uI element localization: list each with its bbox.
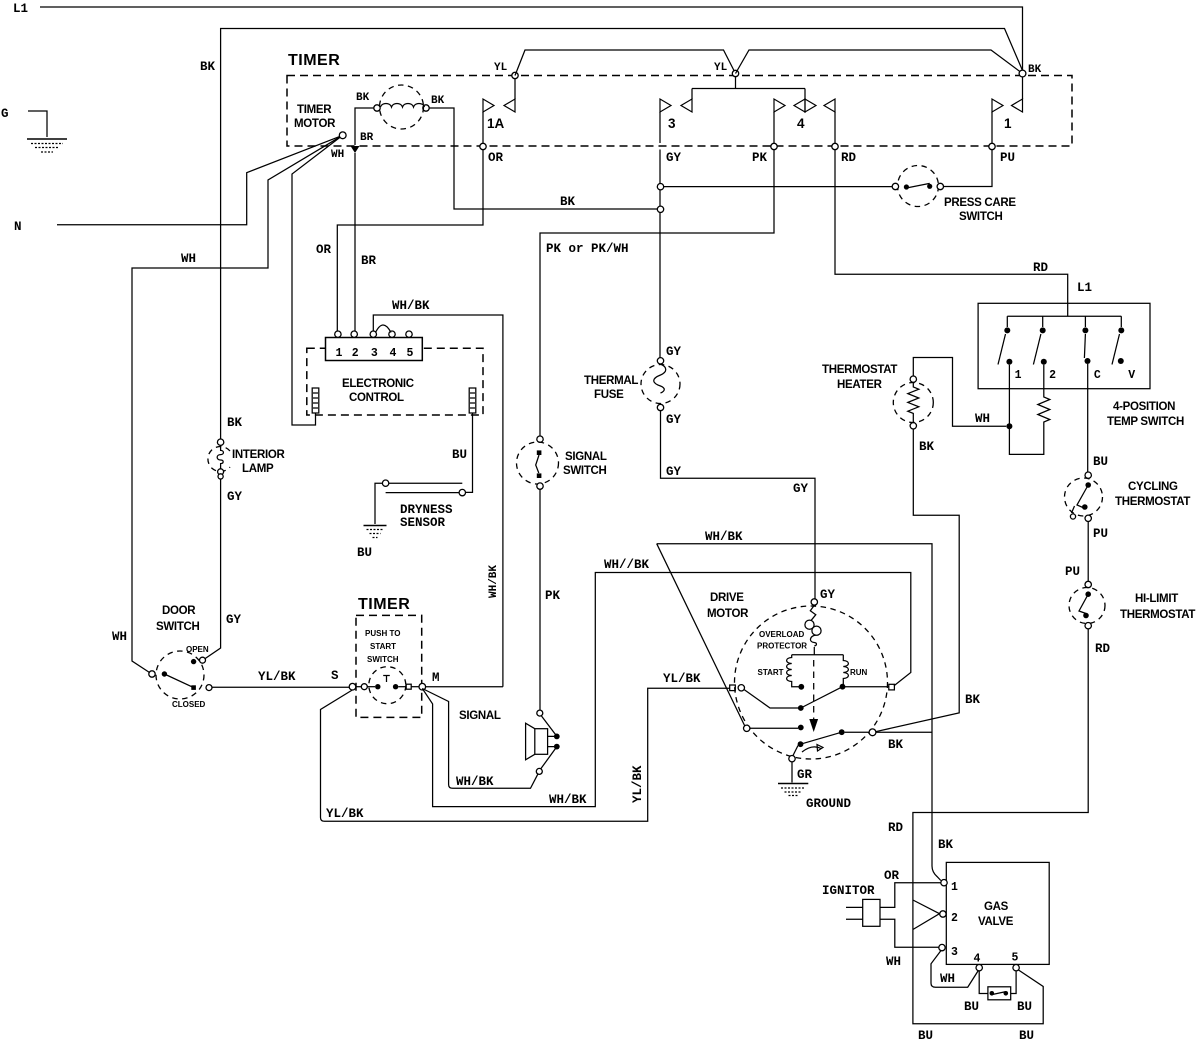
svg-text:SWITCH: SWITCH: [156, 621, 200, 633]
svg-text:YL/BK: YL/BK: [663, 672, 701, 686]
svg-text:MOTOR: MOTOR: [707, 608, 749, 620]
wire RD branch to gas valve pin 2: [913, 900, 940, 930]
timer contact 1A: [483, 72, 518, 143]
svg-text:YL/BK: YL/BK: [326, 807, 364, 821]
node start winding: [798, 684, 804, 690]
svg-text:1: 1: [1004, 116, 1012, 131]
wire RD contact 4 to temp switch: [835, 150, 1068, 317]
hi-limit thermostat: [1069, 581, 1105, 629]
wire run to centrifugal: [801, 687, 843, 708]
run winding: [843, 655, 848, 687]
node junction press care on GY wire: [657, 184, 663, 190]
node centrifugal lower: [798, 741, 804, 747]
wire temp switch 1 to WH junction: [1009, 365, 1043, 455]
svg-text:4: 4: [390, 347, 397, 360]
svg-text:CLOSED: CLOSED: [172, 700, 206, 709]
svg-text:2: 2: [352, 347, 359, 360]
svg-text:PK: PK: [752, 151, 768, 165]
wire buzzer upper lead: [541, 716, 555, 735]
svg-text:2: 2: [1049, 369, 1056, 382]
node WH timer motor: [339, 132, 346, 139]
temp switch contact 2: [1033, 316, 1056, 382]
svg-text:THERMOSTAT: THERMOSTAT: [1115, 496, 1190, 508]
svg-text:WH: WH: [975, 412, 990, 426]
timer contact 1: [992, 77, 1023, 143]
wire G to ground: [28, 111, 47, 137]
wire BK heater to drive motor switch: [876, 429, 960, 732]
wire GY thermal fuse to drive motor: [661, 411, 816, 599]
ground G symbol: [27, 139, 67, 152]
terminal circle lower left: [744, 725, 750, 731]
node BK at contact 1: [1019, 70, 1026, 77]
svg-text:DOOR: DOOR: [162, 605, 196, 617]
svg-text:BU: BU: [452, 448, 467, 462]
svg-text:DRYNESS: DRYNESS: [400, 503, 453, 517]
ignitor: [846, 899, 880, 926]
node signal buzzer lower: [536, 768, 542, 774]
junction dot WH: [1006, 423, 1012, 429]
electronic control right tab: [469, 388, 476, 413]
svg-text:GY: GY: [820, 588, 836, 602]
flame switch contacts: [990, 991, 1009, 996]
svg-text:OR: OR: [316, 243, 332, 257]
wire WH heater to temp switch pin 1: [913, 358, 1006, 427]
svg-text:BU: BU: [357, 546, 372, 560]
svg-text:BK: BK: [431, 95, 445, 107]
svg-text:BK: BK: [356, 92, 370, 104]
svg-text:BR: BR: [361, 254, 377, 268]
svg-text:WH/BK: WH/BK: [488, 565, 500, 598]
svg-text:L1: L1: [1077, 281, 1092, 295]
wire N to timer motor WH node: [57, 135, 343, 224]
centrifugal switch blade upper: [744, 690, 798, 709]
cycling thermostat: [1065, 472, 1103, 522]
svg-text:LAMP: LAMP: [242, 463, 274, 475]
svg-text:5: 5: [1012, 952, 1019, 965]
wire ground: [791, 762, 793, 783]
svg-text:PU: PU: [1000, 151, 1015, 165]
wire YL contact 1A to YL node: [515, 50, 736, 76]
svg-text:4: 4: [797, 116, 805, 131]
timer contact 3: [660, 89, 692, 144]
timer motor coil: [355, 85, 657, 209]
ground symbol motor: [778, 784, 808, 796]
temp switch contact C: [1082, 316, 1101, 382]
wire WH timer motor to door switch: [132, 135, 343, 672]
svg-text:RD: RD: [841, 151, 857, 165]
node junction BK on GY wire: [657, 206, 663, 212]
wire pin 4 to flame switch: [979, 971, 988, 994]
wire jumper hump pin3 to pin4: [376, 325, 392, 333]
svg-text:TIMER: TIMER: [358, 596, 410, 613]
overload protector: [805, 605, 821, 655]
svg-text:YL/BK: YL/BK: [631, 765, 645, 803]
svg-text:GAS: GAS: [984, 901, 1009, 913]
wire WH/BK pin 3 to push-to-start M: [373, 315, 503, 687]
svg-text:ELECTRONIC: ELECTRONIC: [342, 378, 414, 390]
svg-text:PU: PU: [1065, 565, 1080, 579]
wire OR contact 1A to electronic control pin 1: [337, 150, 483, 331]
svg-text:RUN: RUN: [850, 668, 868, 677]
svg-text:M: M: [432, 671, 440, 685]
svg-text:YL/BK: YL/BK: [258, 670, 296, 684]
wire WH/BK M to motor run: [422, 573, 911, 807]
svg-text:4: 4: [974, 953, 981, 966]
svg-text:PUSH TO: PUSH TO: [365, 629, 400, 638]
svg-text:GY: GY: [226, 613, 242, 627]
svg-text:THERMAL: THERMAL: [584, 375, 638, 387]
svg-text:OR: OR: [884, 869, 900, 883]
svg-text:WH: WH: [181, 252, 196, 266]
svg-text:1A: 1A: [487, 116, 505, 131]
ground dryness sensor: [364, 526, 387, 538]
svg-text:5: 5: [407, 347, 414, 360]
svg-text:GROUND: GROUND: [806, 797, 852, 811]
node ground motor: [789, 756, 795, 762]
svg-text:PK: PK: [545, 589, 561, 603]
svg-text:HI-LIMIT: HI-LIMIT: [1135, 593, 1178, 605]
svg-text:PROTECTOR: PROTECTOR: [757, 642, 807, 651]
svg-text:INTERIOR: INTERIOR: [232, 449, 286, 461]
axis arrowhead: [809, 719, 818, 732]
svg-text:SIGNAL: SIGNAL: [459, 710, 501, 722]
wire WH timer motor to electronic control tab: [292, 135, 343, 425]
node OR at timer edge: [480, 143, 486, 149]
wire YL bus above contacts 3 and 4: [692, 88, 805, 90]
electronic control dashed box: [307, 348, 483, 415]
svg-text:G: G: [1, 107, 9, 121]
interior lamp: [208, 439, 230, 479]
svg-text:L1: L1: [13, 2, 28, 16]
svg-text:GY: GY: [793, 482, 809, 496]
thermostat heater: [893, 376, 933, 429]
svg-text:SENSOR: SENSOR: [400, 516, 446, 530]
signal buzzer: [526, 723, 560, 760]
temp switch contact V: [1112, 316, 1135, 382]
svg-text:WH//BK: WH//BK: [604, 558, 650, 572]
svg-text:GY: GY: [227, 490, 243, 504]
wire BK interior lamp to timer contact 1: [221, 29, 1023, 440]
svg-text:TIMER: TIMER: [288, 52, 340, 69]
wire OR ignitor to pin 1: [880, 883, 941, 908]
svg-text:RD: RD: [888, 821, 904, 835]
svg-text:CYCLING: CYCLING: [1128, 481, 1178, 493]
svg-text:RD: RD: [1033, 261, 1049, 275]
wire PU cycling to hi-limit: [1087, 522, 1089, 582]
svg-text:IGNITOR: IGNITOR: [822, 884, 875, 898]
node PK at timer edge: [771, 143, 777, 149]
svg-text:OPEN: OPEN: [186, 645, 209, 654]
svg-text:START: START: [758, 668, 784, 677]
svg-text:DRIVE: DRIVE: [710, 592, 744, 604]
wire PU press care to contact 1: [944, 150, 993, 187]
svg-text:SWITCH: SWITCH: [959, 211, 1003, 223]
svg-text:BK: BK: [938, 838, 954, 852]
node YL: [732, 70, 738, 76]
node centrifugal upper: [798, 705, 804, 711]
svg-text:START: START: [370, 642, 396, 651]
svg-text:BK: BK: [200, 60, 216, 74]
svg-text:GR: GR: [797, 768, 813, 782]
timer dashed box: [287, 76, 1072, 147]
wire to BK junction: [845, 731, 932, 733]
electronic control left tab: [312, 388, 319, 413]
gas valve pin terminals: [939, 880, 1020, 971]
wire BR to electronic control pin 2: [354, 153, 356, 331]
push to start dashed box: [356, 615, 422, 717]
svg-text:GY: GY: [666, 345, 682, 359]
wire YL/BK door switch to S terminal: [212, 686, 349, 688]
blade lower switch: [801, 732, 842, 744]
svg-text:BU: BU: [964, 1000, 979, 1014]
svg-text:3: 3: [668, 116, 676, 131]
svg-text:4-POSITION: 4-POSITION: [1113, 401, 1175, 413]
wire PK contact 4 to signal switch: [540, 150, 774, 436]
svg-text:WH: WH: [331, 149, 344, 161]
svg-text:YL: YL: [494, 62, 508, 74]
svg-text:GY: GY: [666, 465, 682, 479]
wire GR to ground: [793, 746, 798, 756]
node GY at motor top: [811, 599, 817, 605]
wire M to WH/BK corner: [426, 686, 503, 688]
svg-text:VALVE: VALVE: [978, 916, 1014, 928]
node blade end: [839, 729, 845, 735]
svg-text:PK or PK/WH: PK or PK/WH: [546, 242, 629, 256]
flame switch box: [988, 987, 1011, 1000]
drive motor dashed circle: [735, 606, 888, 759]
pin triangle BR at timer box edge: [351, 146, 360, 153]
terminal square left YL/BK: [730, 685, 736, 691]
svg-text:WH: WH: [886, 955, 901, 969]
svg-text:BR: BR: [360, 132, 374, 144]
node signal buzzer upper: [537, 710, 543, 716]
svg-text:TEMP SWITCH: TEMP SWITCH: [1107, 416, 1184, 428]
terminal square right: [889, 684, 895, 690]
svg-text:SWITCH: SWITCH: [563, 465, 607, 477]
gas valve pin labels: [951, 881, 1019, 966]
svg-text:BK: BK: [227, 416, 243, 430]
svg-text:3: 3: [371, 347, 378, 360]
temp switch contact 1: [998, 316, 1022, 382]
4-position temp switch box: [978, 303, 1150, 388]
wire press care switch left lead: [664, 186, 893, 188]
node centrifugal mid: [798, 725, 804, 731]
svg-text:WH/BK: WH/BK: [549, 793, 587, 807]
svg-text:HEATER: HEATER: [837, 379, 883, 391]
node BK junction diamond: [869, 729, 876, 736]
connector pin numbers: [335, 347, 413, 360]
svg-text:WH: WH: [112, 630, 127, 644]
terminal circle left: [738, 685, 744, 691]
motor windings top bar: [792, 654, 844, 656]
svg-text:3: 3: [951, 946, 958, 959]
svg-text:GY: GY: [666, 413, 682, 427]
wire PK signal switch to buzzer: [539, 489, 541, 710]
svg-text:BK: BK: [888, 738, 904, 752]
thermal fuse: [641, 358, 680, 411]
svg-text:FUSE: FUSE: [594, 389, 624, 401]
start winding: [787, 655, 799, 687]
svg-text:WH/BK: WH/BK: [392, 299, 430, 313]
wire flame switch to pin 5: [1011, 971, 1016, 994]
wire YL node to contact 1 BK node: [736, 50, 1023, 74]
svg-text:BK: BK: [560, 195, 576, 209]
push to start switch: [349, 667, 425, 704]
svg-text:WH: WH: [940, 972, 955, 986]
node PU at timer edge: [989, 143, 995, 149]
svg-text:PRESS CARE: PRESS CARE: [944, 197, 1016, 209]
wire WH pin 3 to pin 4: [931, 951, 978, 988]
wire L1 to timer contact 1: [40, 7, 1023, 70]
node RD at timer edge: [832, 143, 838, 149]
motor center dashed axis: [813, 660, 815, 719]
svg-text:THERMOSTAT: THERMOSTAT: [822, 364, 897, 376]
svg-text:PU: PU: [1093, 527, 1108, 541]
svg-text:BU: BU: [1093, 455, 1108, 469]
rotation arrow: [802, 747, 821, 752]
svg-text:THERMOSTAT: THERMOSTAT: [1120, 609, 1195, 621]
svg-text:BK: BK: [919, 440, 935, 454]
wire BU right tab to dryness sensor: [466, 413, 473, 492]
svg-text:SIGNAL: SIGNAL: [565, 451, 607, 463]
svg-text:TIMER: TIMER: [297, 104, 332, 116]
wire WH/BK M to signal buzzer: [422, 689, 538, 789]
wire GY contact 3 to thermal fuse: [659, 150, 661, 359]
svg-text:1: 1: [335, 347, 342, 360]
electronic control connector box: [326, 338, 423, 361]
wire lower left terminal: [750, 727, 798, 729]
svg-text:BU: BU: [918, 1029, 933, 1040]
svg-text:V: V: [1128, 369, 1135, 382]
wire YL node stub: [735, 77, 737, 89]
svg-text:S: S: [331, 669, 339, 683]
node run winding: [840, 684, 846, 690]
svg-text:N: N: [14, 220, 22, 234]
svg-text:GY: GY: [666, 151, 682, 165]
svg-text:BU: BU: [1017, 1000, 1032, 1014]
svg-text:BU: BU: [1019, 1029, 1034, 1040]
svg-text:RD: RD: [1095, 642, 1111, 656]
resistor temp switch 2: [1038, 365, 1050, 426]
svg-text:CONTROL: CONTROL: [349, 392, 404, 404]
wire WH ignitor to pin 3: [880, 919, 939, 947]
svg-text:BK: BK: [1028, 64, 1042, 76]
svg-text:1: 1: [951, 881, 958, 894]
svg-text:WH/BK: WH/BK: [456, 775, 494, 789]
wire run winding to right terminal: [845, 686, 889, 688]
gas valve box: [946, 862, 1049, 964]
connector pin terminals: [335, 331, 413, 337]
temp switch internal bus: [1007, 315, 1121, 317]
svg-text:WH/BK: WH/BK: [705, 530, 743, 544]
wire BK lower terminal loop to gas valve pin 1: [657, 544, 941, 881]
svg-text:MOTOR: MOTOR: [294, 118, 336, 130]
svg-text:1: 1: [1015, 369, 1022, 382]
door switch: [149, 645, 212, 709]
wire BU temp switch C to cycling thermostat: [1087, 364, 1089, 472]
svg-text:OVERLOAD: OVERLOAD: [759, 630, 805, 639]
timer contact 4: [774, 89, 835, 144]
svg-text:SWITCH: SWITCH: [367, 655, 399, 664]
wire YL/BK S to drive motor: [321, 688, 730, 821]
svg-text:YL: YL: [714, 62, 728, 74]
svg-text:OR: OR: [488, 151, 504, 165]
svg-text:2: 2: [951, 912, 958, 925]
wire GY lamp to door switch open: [205, 479, 221, 659]
svg-text:BK: BK: [965, 693, 981, 707]
wire WH/BK to lower left terminal: [657, 544, 745, 726]
wire buzzer lower lead: [541, 749, 556, 769]
signal switch: [517, 436, 559, 489]
dryness sensor: [375, 480, 465, 524]
wire RD hi-limit to gas valve pin 2: [913, 629, 1088, 1024]
svg-text:C: C: [1094, 369, 1101, 382]
press care switch: [892, 166, 943, 207]
